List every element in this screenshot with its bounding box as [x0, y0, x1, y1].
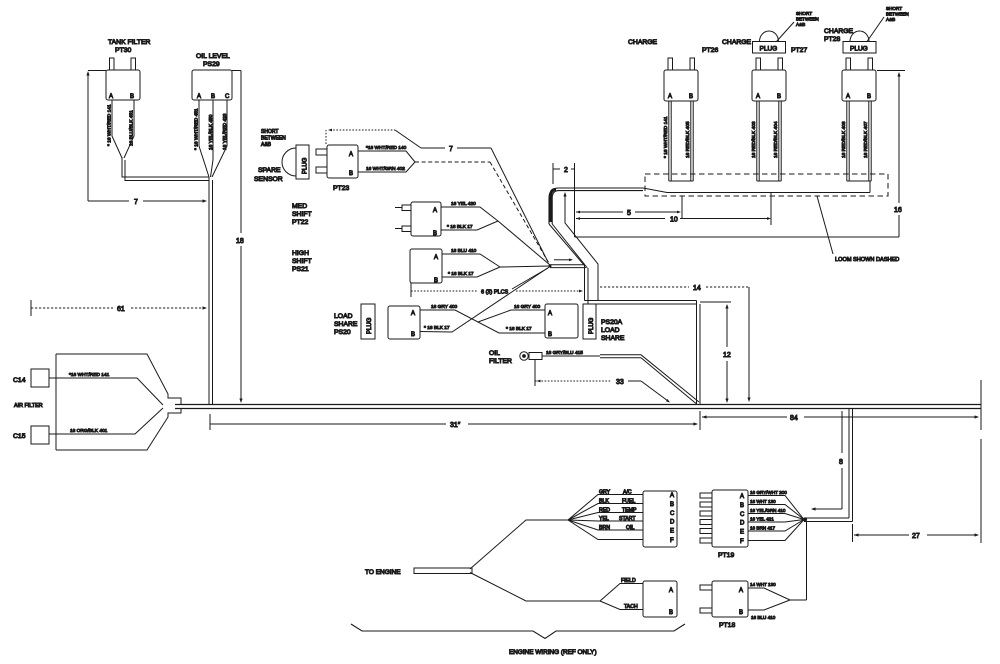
svg-text:B: B: [740, 503, 744, 509]
dimension 33 (oil filter branch): [535, 360, 670, 403]
wire PS21 pair to junction: [500, 266, 550, 267]
wire PT19-B 16 WHT 130: [748, 499, 804, 520]
svg-text:RED: RED: [599, 508, 610, 514]
svg-text:* 16 BLK 17: * 16 BLK 17: [448, 271, 474, 277]
svg-text:A/C: A/C: [623, 490, 632, 496]
connector C14: [13, 369, 49, 387]
sensor OIL FILTER ring terminal: [489, 350, 542, 365]
dimension 14 (to bus): [600, 285, 751, 402]
plug (PT27 mating plug): [753, 31, 786, 53]
svg-text:GRY: GRY: [599, 490, 611, 496]
wire PT27-B 16 RED/BLK 404: [773, 101, 781, 181]
wire PT26 A-B tie in loom: [669, 180, 693, 182]
dimension 31": [210, 414, 698, 430]
svg-text:B: B: [669, 610, 673, 616]
wire PT23-B 16 WHT/GRN 402: [358, 162, 415, 172]
dimension 7 (PT23 branch, along loom): [326, 129, 548, 262]
svg-text:BETWEEN: BETWEEN: [261, 136, 286, 142]
svg-text:TEMP: TEMP: [622, 508, 637, 514]
svg-text:PT18: PT18: [719, 622, 735, 629]
svg-text:BETWEEN: BETWEEN: [886, 12, 909, 17]
svg-text:SHORT: SHORT: [886, 6, 902, 11]
svg-text:E: E: [670, 529, 674, 535]
wire engine GRY: [568, 490, 643, 521]
svg-text:A&B: A&B: [261, 142, 272, 148]
wire PT23-A 16 WHT/RED 140: [358, 145, 415, 162]
svg-text:16 GRY/WHT 200: 16 GRY/WHT 200: [750, 490, 787, 495]
connector C15: [13, 426, 49, 444]
svg-text:B: B: [739, 610, 743, 616]
wire harness vertical from PS29 junction to main bus: [209, 177, 213, 404]
wire PT27 A-B tie in loom: [757, 180, 781, 182]
svg-text:16 YEL/GRN 410: 16 YEL/GRN 410: [750, 508, 786, 513]
wire C14 16 WHT/RED 141: [49, 372, 163, 405]
wire FIELD: [600, 578, 643, 601]
svg-text:SENSOR: SENSOR: [254, 176, 283, 183]
dimension 2 (loom offset): [553, 163, 575, 237]
loom (dashed outline): [645, 174, 888, 196]
plug (PS20A mating plug): [583, 304, 596, 339]
svg-text:HIGH: HIGH: [292, 250, 309, 257]
svg-text:A: A: [349, 152, 353, 158]
loom direction arrow (into loom): [563, 192, 598, 301]
wire PS29-A 16 WHT/RED 451: [194, 100, 210, 177]
wire PT23 pair (dashed loom run to junction): [415, 162, 550, 265]
svg-text:B: B: [211, 94, 215, 100]
dimension 27: [853, 439, 982, 543]
wire PT18-B 16 BLU 410: [748, 600, 790, 620]
wire PT26-A * 16 WHT/RED 141: [663, 101, 671, 181]
connector engine 6-pin (A-F): [643, 491, 677, 547]
wire PS20-A 16 GRY 400 (crosses to PS20A-B): [420, 304, 545, 333]
wire PS21-B 16 BLK 17: [442, 267, 500, 277]
node PT19 fan point to loom: [803, 517, 807, 521]
svg-text:A: A: [846, 94, 850, 100]
svg-text:16 RED/BLK 406: 16 RED/BLK 406: [841, 121, 847, 158]
svg-text:33: 33: [616, 379, 624, 386]
svg-text:84: 84: [790, 415, 798, 422]
svg-text:C: C: [740, 512, 745, 518]
brace ENGINE WIRING (REF ONLY): [351, 624, 685, 656]
svg-text:16 GRY 400: 16 GRY 400: [514, 304, 541, 310]
svg-text:SHIFT: SHIFT: [292, 211, 312, 218]
svg-text:PT30: PT30: [115, 47, 131, 54]
connector PS29 OIL LEVEL: [192, 53, 232, 100]
svg-text:16: 16: [894, 207, 902, 214]
wire engine RED: [568, 508, 643, 521]
wire PT22 pair to junction: [498, 221, 550, 265]
svg-text:14: 14: [693, 285, 701, 292]
svg-text:A: A: [197, 94, 201, 100]
label PS20A LOAD SHARE: [601, 319, 625, 342]
svg-text:SHARE: SHARE: [334, 321, 358, 328]
svg-text:31″: 31″: [450, 422, 461, 429]
wire PT22-B 16 BLK 17: [441, 221, 498, 230]
svg-text:A: A: [433, 208, 437, 214]
svg-text:16 BLU 410: 16 BLU 410: [451, 248, 477, 254]
svg-text:C14: C14: [13, 377, 26, 384]
loom run corner to bus drop: [585, 265, 701, 404]
dimension 5: [576, 196, 682, 218]
svg-text:PT27: PT27: [791, 47, 807, 54]
svg-text:B: B: [434, 278, 438, 284]
svg-text:B: B: [689, 94, 693, 100]
svg-text:D: D: [740, 521, 745, 527]
svg-text:16 BLU/BLK 451: 16 BLU/BLK 451: [129, 110, 135, 146]
svg-text:A: A: [669, 588, 673, 594]
wire PS20A-A 16 GRY 400: [478, 304, 545, 322]
svg-text:14 WHT 130: 14 WHT 130: [750, 582, 776, 587]
svg-text:TO ENGINE: TO ENGINE: [365, 569, 401, 576]
svg-text:16 BLU 410: 16 BLU 410: [751, 615, 776, 620]
connector engine 2-pin (FIELD/TACH): [643, 581, 677, 617]
svg-text:16 GRY 400: 16 GRY 400: [431, 304, 458, 310]
svg-text:PS20A: PS20A: [601, 319, 623, 326]
svg-text:SHARE: SHARE: [601, 335, 625, 342]
svg-text:12: 12: [723, 352, 731, 359]
connector PS20A: [545, 304, 578, 338]
svg-text:CHARGE: CHARGE: [628, 39, 658, 46]
svg-text:START: START: [619, 516, 636, 522]
svg-text:LOAD: LOAD: [601, 327, 620, 334]
note SHORT BETWEEN A&B (PT28): [867, 6, 909, 42]
svg-text:SHIFT: SHIFT: [292, 258, 312, 265]
svg-text:A: A: [756, 94, 760, 100]
svg-text:16 WHT/GRN 402: 16 WHT/GRN 402: [366, 166, 405, 172]
wire main harness bus: [175, 405, 981, 409]
svg-text:SPARE: SPARE: [258, 167, 281, 174]
svg-text:OIL: OIL: [626, 525, 634, 531]
svg-text:A: A: [739, 588, 743, 594]
svg-text:D: D: [670, 520, 675, 526]
svg-text:FIELD: FIELD: [621, 578, 636, 584]
loom diagonal from bend to corner: [549, 224, 587, 268]
wire PT28-B 16 RED/BLK 407: [863, 101, 871, 181]
svg-text:A: A: [434, 255, 438, 261]
plug (PT28 mating plug): [843, 31, 876, 53]
wire PT30-B 16 BLU/BLK 451: [124, 100, 135, 158]
svg-text:16 RED/BLK 407: 16 RED/BLK 407: [863, 121, 869, 158]
svg-text:C: C: [670, 511, 675, 517]
svg-text:*16 WHT/RED 141: *16 WHT/RED 141: [69, 372, 110, 378]
svg-text:LOOM SHOWN DASHED: LOOM SHOWN DASHED: [835, 257, 899, 263]
wire PT19-F: [748, 520, 804, 541]
connector PS21 HIGH SHIFT: [292, 249, 442, 284]
connector PT30 TANK FILTER: [106, 39, 151, 100]
svg-text:16 YEL/RED 423: 16 YEL/RED 423: [222, 113, 228, 150]
svg-text:B: B: [670, 502, 674, 508]
svg-text:SHORT: SHORT: [261, 129, 278, 135]
wire engine stub bar: [414, 568, 472, 574]
svg-text:B: B: [349, 171, 353, 177]
wire engine BRN: [568, 520, 643, 531]
wire PT30-A 16 WHT/RED 141: [107, 100, 123, 158]
svg-text:PT22: PT22: [292, 219, 308, 226]
svg-text:BRN: BRN: [599, 525, 610, 531]
svg-text:B: B: [130, 94, 134, 100]
svg-text:CHARGE: CHARGE: [824, 28, 854, 35]
dimension 61: [31, 300, 207, 316]
svg-text:16 BRN 417: 16 BRN 417: [750, 526, 775, 531]
svg-text:16 RED/BLK 404: 16 RED/BLK 404: [773, 121, 779, 158]
connector PT19: [700, 490, 748, 559]
svg-text:16 WHT 130: 16 WHT 130: [750, 499, 776, 504]
svg-text:* 16 WHT/RED 451: * 16 WHT/RED 451: [194, 108, 200, 150]
svg-text:B: B: [411, 332, 415, 338]
wire PT18 pair up to PT19 fan: [790, 522, 807, 601]
svg-text:* 16 BLK 17: * 16 BLK 17: [447, 224, 473, 230]
wire PT22-A 16 YEL 420: [441, 201, 498, 221]
plug (spare sensor mating plug): [282, 145, 309, 179]
svg-text:PT23: PT23: [333, 185, 349, 192]
svg-text:7: 7: [134, 199, 138, 206]
connector PT28 CHARGE: [824, 28, 876, 101]
svg-text:*16 WHT/RED 140: *16 WHT/RED 140: [366, 145, 407, 151]
svg-text:7: 7: [449, 146, 453, 153]
svg-text:OIL LEVEL: OIL LEVEL: [196, 53, 230, 60]
label LOOM SHOWN DASHED: [817, 196, 899, 263]
svg-text:B: B: [548, 332, 552, 338]
svg-text:PS21: PS21: [292, 266, 309, 273]
svg-text:TANK FILTER: TANK FILTER: [108, 39, 151, 46]
svg-text:PS29: PS29: [203, 61, 220, 68]
svg-text:6 (3) PLCS: 6 (3) PLCS: [481, 290, 509, 296]
svg-text:* 16 WHT/RED 141: * 16 WHT/RED 141: [663, 116, 669, 158]
loom air filter funnel outline: [56, 354, 181, 450]
connector PT27 CHARGE: [722, 39, 807, 101]
svg-text:PLUG: PLUG: [850, 46, 868, 53]
svg-text:A: A: [109, 94, 113, 100]
wire loom run inside dashed outline: [643, 181, 870, 193]
wire engine harness lower branch: [470, 573, 600, 602]
wire harness from PT30 to PS29 junction: [122, 157, 209, 181]
dimension 18 (PS29 drop length): [232, 71, 244, 404]
svg-text:F: F: [670, 538, 674, 544]
svg-text:OIL: OIL: [489, 350, 500, 357]
wire PT19-D 16 YEL 421: [748, 517, 804, 523]
svg-text:PT19: PT19: [718, 552, 734, 559]
svg-text:5: 5: [627, 210, 631, 217]
svg-text:PS20: PS20: [334, 329, 351, 336]
connector PS20: [388, 306, 420, 339]
svg-text:BLK: BLK: [599, 499, 609, 505]
svg-text:* 16 BLK 17: * 16 BLK 17: [506, 326, 532, 332]
wire PS21-A 16 BLU 410: [442, 248, 500, 267]
svg-text:* 16 BLK 17: * 16 BLK 17: [424, 325, 450, 331]
svg-text:BETWEEN: BETWEEN: [796, 17, 819, 22]
svg-text:16 ORG/BLK 401: 16 ORG/BLK 401: [70, 428, 108, 434]
loom main bend (thick): [549, 188, 643, 224]
svg-text:E: E: [740, 530, 744, 536]
svg-text:10: 10: [670, 217, 678, 224]
connector PT26 CHARGE: [628, 39, 718, 101]
svg-text:B: B: [867, 94, 871, 100]
dimension 7 (PT30 branch length): [86, 71, 207, 207]
note SHORT BETWEEN A&B (PT23): [261, 129, 286, 148]
wire loom drop to PT19: [806, 409, 853, 522]
wire TACH: [600, 601, 643, 610]
wire C15 16 ORG/BLK 401: [49, 408, 163, 434]
wire PT18-A 14 WHT 130: [748, 582, 790, 600]
wire PT26-B 16 RED/BLK 405: [685, 101, 693, 181]
svg-text:AIR FILTER: AIR FILTER: [14, 403, 43, 409]
connector PT23: [316, 145, 358, 192]
wire engine BLK: [568, 499, 643, 521]
wire engine F: [568, 520, 643, 540]
svg-text:PT26: PT26: [702, 47, 718, 54]
svg-text:2: 2: [564, 167, 568, 174]
svg-text:F: F: [740, 539, 744, 545]
svg-text:B: B: [433, 231, 437, 237]
label LOAD SHARE PS20: [334, 313, 358, 336]
wire OIL FILTER 16 GRY/BLU 415: [542, 350, 699, 404]
wire engine YEL: [568, 516, 643, 522]
dimension 8: [811, 411, 843, 511]
svg-text:A&B: A&B: [796, 22, 805, 27]
svg-text:18: 18: [236, 238, 244, 245]
svg-text:* 16 WHT/RED 141: * 16 WHT/RED 141: [107, 104, 113, 146]
svg-text:16 YEL 420: 16 YEL 420: [451, 201, 476, 207]
svg-text:ENGINE WIRING (REF ONLY): ENGINE WIRING (REF ONLY): [509, 649, 597, 656]
wire PT19-C 16 YEL/GRN 410: [748, 508, 804, 520]
svg-text:PLUG: PLUG: [303, 157, 309, 174]
svg-text:A: A: [668, 94, 672, 100]
dimension 12 (loom to bus): [700, 302, 731, 403]
svg-text:A&B: A&B: [886, 17, 895, 22]
wire PS29-C 16 YEL/RED 423: [212, 100, 228, 177]
svg-text:PLUG: PLUG: [589, 317, 595, 334]
svg-text:8: 8: [839, 459, 843, 466]
svg-text:MED: MED: [292, 203, 307, 210]
note SHORT BETWEEN A&B (PT27): [777, 11, 819, 42]
wire PT28-A 16 RED/BLK 406: [841, 101, 849, 181]
wire PT19-E 16 BRN 417: [748, 520, 804, 532]
svg-text:16 YEL/BLK 450: 16 YEL/BLK 450: [208, 114, 214, 150]
svg-text:LOAD: LOAD: [334, 313, 353, 320]
svg-text:C: C: [225, 94, 230, 100]
svg-text:16 YEL 421: 16 YEL 421: [750, 517, 774, 522]
wire PT28 A-B tie in loom: [847, 180, 871, 182]
svg-text:PT28: PT28: [824, 36, 840, 43]
svg-text:FILTER: FILTER: [489, 358, 512, 365]
dimension 10: [576, 192, 771, 225]
svg-text:16 GRY/BLU 415: 16 GRY/BLU 415: [546, 350, 583, 356]
svg-text:A: A: [670, 493, 674, 499]
plug (PS20 mating plug): [361, 304, 375, 339]
svg-text:TACH: TACH: [624, 604, 638, 610]
wire PS29-B 16 YEL/BLK 450: [208, 100, 214, 177]
svg-text:16 RED/BLK 403: 16 RED/BLK 403: [751, 121, 757, 158]
wire engine harness upper branch: [470, 520, 568, 569]
wire PT27-A 16 RED/BLK 403: [751, 101, 759, 181]
node main junction: [549, 258, 587, 267]
svg-text:FUEL: FUEL: [622, 499, 635, 505]
connector PT18: [700, 581, 748, 629]
wire PT19-A 16 GRY/WHT 200: [748, 490, 804, 520]
svg-text:C15: C15: [13, 433, 26, 440]
svg-text:PLUG: PLUG: [367, 317, 373, 334]
svg-text:A: A: [548, 311, 552, 317]
svg-text:CHARGE: CHARGE: [722, 39, 752, 46]
svg-text:A: A: [740, 494, 744, 500]
dimension 16 (loom run to PT28): [575, 71, 906, 238]
svg-text:PLUG: PLUG: [760, 46, 778, 53]
connector PT22 MED SHIFT: [292, 202, 441, 237]
label SPARE SENSOR: [254, 167, 283, 183]
svg-text:SHORT: SHORT: [796, 11, 812, 16]
svg-text:61: 61: [117, 306, 125, 313]
svg-text:B: B: [777, 94, 781, 100]
svg-text:A: A: [411, 311, 415, 317]
svg-text:YEL: YEL: [599, 516, 609, 522]
dimension 84: [700, 380, 981, 430]
svg-text:16 RED/BLK 405: 16 RED/BLK 405: [685, 121, 691, 158]
svg-text:27: 27: [912, 533, 920, 540]
wire PS20-B 16 BLK 17 (crosses up to junction): [420, 267, 550, 333]
dimension 6 (3) PLCS: [411, 268, 583, 297]
